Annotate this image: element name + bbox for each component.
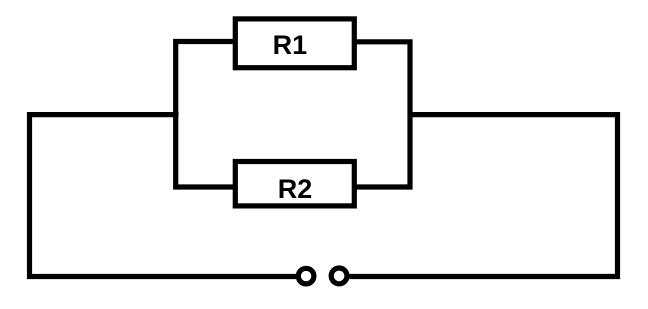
svg-text:R2: R2 bbox=[278, 174, 313, 204]
resistor R1 bbox=[235, 19, 354, 68]
wire: outer loop right (top-right horizontal, right vertical, bottom-right to right terminal) bbox=[350, 115, 618, 277]
terminal: right open circle bbox=[331, 268, 347, 284]
resistor R2 bbox=[235, 162, 354, 206]
wire: outer loop left (top-left horizontal, left vertical, bottom-left to left terminal) bbox=[30, 115, 297, 277]
terminal: left open circle bbox=[298, 268, 314, 284]
svg-text:R1: R1 bbox=[273, 30, 308, 60]
wire: left bus connecting R1 and R2 left leads bbox=[176, 42, 234, 188]
wire: right bus connecting R1 and R2 right leads bbox=[356, 42, 410, 187]
